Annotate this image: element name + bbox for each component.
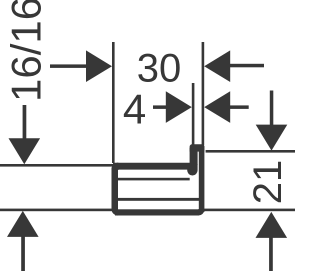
- profile bottom bar: [115, 209, 199, 215]
- profile top-bar end curl: [187, 164, 197, 176]
- profile right wall: [199, 146, 205, 212]
- wall line left top: [0, 164, 115, 167]
- 21 dimension line bottom: [269, 237, 273, 271]
- profile top bar corner rounding: [112, 163, 119, 170]
- arrow 30 left: [86, 50, 112, 82]
- svg-text:16/16: 16/16: [3, 0, 50, 102]
- wall line bottom right: [203, 209, 295, 212]
- arrow 4 right: [204, 91, 230, 123]
- arrow 16/16 up: [7, 211, 39, 237]
- wall line bottom left: [0, 209, 113, 212]
- extension line A (4 left): [192, 83, 195, 146]
- extension line B (30/4 right): [202, 42, 205, 146]
- inner shelf line lower: [118, 198, 200, 201]
- arrow 30 right: [204, 50, 230, 82]
- leader 4 left: [153, 105, 173, 109]
- arrow 4 left: [166, 91, 192, 123]
- leader 4 right: [228, 105, 249, 109]
- leader 30 right: [228, 64, 264, 68]
- profile left wall: [112, 163, 119, 216]
- wall line right top: [206, 150, 295, 153]
- 21 dimension line top: [270, 91, 274, 129]
- 16/16 dimension line top: [23, 105, 27, 142]
- extension line x112 (30 left): [112, 42, 115, 163]
- svg-text:21: 21: [246, 160, 290, 205]
- hook cap: [190, 144, 205, 151]
- 16/16 dimension line bottom: [21, 235, 25, 271]
- arrow 21 down: [256, 125, 288, 151]
- svg-text:4: 4: [123, 86, 146, 133]
- leader 30 left: [50, 64, 98, 68]
- inner shelf line upper: [118, 178, 190, 181]
- arrow 21 up: [256, 212, 288, 238]
- arrow 16/16 down: [9, 138, 41, 164]
- svg-text:30: 30: [137, 47, 182, 91]
- profile top bar: [113, 163, 197, 170]
- hook left wall: [190, 148, 198, 165]
